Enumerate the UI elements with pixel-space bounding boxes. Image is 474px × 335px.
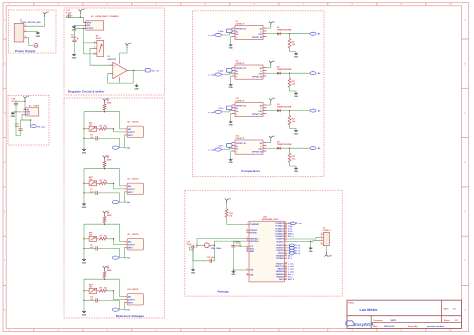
trimmer RP4 label xyxy=(89,283,94,288)
svg-text:PC6/RESET: PC6/RESET xyxy=(250,224,260,226)
resistor R9 label xyxy=(99,288,107,290)
comparators block border xyxy=(193,11,325,177)
svg-text:B0_sw: B0_sw xyxy=(295,253,301,255)
resistor R11 xyxy=(288,116,291,125)
title block REV field xyxy=(444,308,457,310)
wire R1 to rail (stage 1) xyxy=(104,103,106,105)
regulator U5 xyxy=(24,108,39,116)
op-amp U7 xyxy=(232,26,267,40)
wire cap right (stage 1) xyxy=(100,138,119,147)
wire C17 top to VCC pin xyxy=(233,242,246,247)
svg-text:2022-03-26: 2022-03-26 xyxy=(384,326,395,328)
svg-text:IN+: IN+ xyxy=(236,149,239,151)
wire cap left (stage 2) xyxy=(84,192,93,194)
wire diode to output (comparator 1) xyxy=(280,33,310,35)
svg-text:IN-: IN- xyxy=(236,108,239,110)
wire resistor to ground (comparator 2) xyxy=(290,87,297,92)
svg-text:Atmega: Atmega xyxy=(217,289,229,293)
junction (V+ rail) xyxy=(24,101,25,102)
wire rail right (stage 1) xyxy=(105,112,125,129)
resistor R1 label xyxy=(107,100,112,104)
mcu U1 ATmega8 xyxy=(246,221,287,282)
resistor R8 xyxy=(103,272,106,278)
svg-text:OFFSET_N1: OFFSET_N1 xyxy=(236,68,246,70)
capacitor C10 xyxy=(18,128,22,132)
svg-text:PB1/OC1A: PB1/OC1A xyxy=(275,265,284,268)
svg-text:Lux Meter: Lux Meter xyxy=(360,308,378,312)
svg-text:OUTPUT: OUTPUT xyxy=(128,132,136,134)
wire top rail (stage 3) xyxy=(84,223,105,259)
wire op-amp input down (stage 4) xyxy=(119,302,124,309)
net flag oval A2 xyxy=(310,72,316,75)
svg-text:1.36v: 1.36v xyxy=(125,148,131,150)
svg-text:1: 1 xyxy=(247,223,248,225)
resistor R1 xyxy=(103,104,106,110)
capacitor C15 xyxy=(190,245,197,249)
wire V- to ground (comparator 3) xyxy=(230,113,233,120)
svg-text:PC2/ADC2: PC2/ADC2 xyxy=(275,227,283,230)
resistor R10 label xyxy=(292,81,297,85)
wire PD3 to J2 pin3 xyxy=(287,240,321,243)
svg-text:Date:: Date: xyxy=(373,325,379,328)
ground (reference stage 1) xyxy=(82,148,87,154)
svg-text:3: 3 xyxy=(94,52,95,54)
resistor R12 xyxy=(288,153,291,162)
wire +V to R13 xyxy=(226,204,228,209)
svg-text:IN-: IN- xyxy=(236,146,239,148)
junction (mcu gnd) xyxy=(233,269,234,270)
wire cap left (stage 3) xyxy=(84,247,93,249)
svg-text:ADJ: ADJ xyxy=(128,128,131,131)
wire mcu GND pin xyxy=(233,269,246,271)
svg-text:NE5532P: NE5532P xyxy=(108,59,117,61)
net port (comparator 3 ref input) xyxy=(226,106,232,110)
wire xtal1 xyxy=(197,239,246,246)
wire OUT to diode (comparator 1) xyxy=(266,33,277,35)
wire rail right (stage 3) xyxy=(105,224,125,241)
potentiometer RP1 label xyxy=(96,35,102,41)
wire ref input (comparator 1) xyxy=(231,30,233,32)
trimmer RP2 xyxy=(86,181,99,186)
resistor R3 label xyxy=(107,157,112,161)
junction trimmer (stage 1) xyxy=(83,128,84,129)
svg-text:pasindu mandara: pasindu mandara xyxy=(427,325,445,328)
diode D2 label xyxy=(277,67,292,72)
power flag +V (comparator 2) xyxy=(269,61,276,66)
wire diode to output (comparator 4) xyxy=(280,147,310,149)
svg-text:L7805: L7805 xyxy=(33,106,40,108)
op-amp U12 xyxy=(232,140,267,154)
wire RP1 pin3 to gnd bus xyxy=(83,43,93,54)
junction mid (stage 4) xyxy=(113,290,114,291)
op-amp U3 label xyxy=(108,56,117,61)
resistor R2 label xyxy=(99,126,107,128)
ground (mcu) xyxy=(231,270,236,276)
capacitor C17 xyxy=(231,243,235,249)
wire output bus vertical xyxy=(83,28,93,43)
ground (C12) xyxy=(72,54,77,60)
svg-text:GND: GND xyxy=(294,96,299,98)
ground (U3) xyxy=(134,85,139,91)
svg-text:LM741CP: LM741CP xyxy=(236,23,245,26)
ground (reference stage 2) xyxy=(82,203,87,209)
wire gnd tap xyxy=(136,83,138,85)
svg-text:Power Supply: Power Supply xyxy=(15,49,36,53)
wire C15 to xtal node xyxy=(196,245,197,247)
svg-text:OFFSET_N2: OFFSET_N2 xyxy=(252,37,262,39)
svg-text:GND: GND xyxy=(229,87,234,89)
svg-text:C: C xyxy=(464,112,466,115)
wire R6 to rail (stage 3) xyxy=(104,215,106,217)
svg-text:1: 1 xyxy=(25,25,26,27)
svg-text:P1_sw: P1_sw xyxy=(296,223,302,225)
svg-text:1.02v: 1.02v xyxy=(125,202,131,204)
wire R5 to op-amp (stage 2) xyxy=(107,183,125,189)
regulator U5 label xyxy=(29,106,40,108)
svg-text:V+: V+ xyxy=(260,31,262,33)
svg-text:20: 20 xyxy=(285,278,287,280)
wire R7 to op-amp (stage 3) xyxy=(107,239,125,245)
wire U3 V+ supply xyxy=(120,48,127,59)
svg-text:23: 23 xyxy=(285,222,287,224)
wire cap left (stage 4) xyxy=(84,299,93,301)
resistor R10 xyxy=(288,78,291,87)
svg-text:0.1uF: 0.1uF xyxy=(66,13,72,15)
svg-text:G: G xyxy=(464,309,466,312)
net flag oval o_sw3 xyxy=(215,110,222,113)
ground (reference stage 4) xyxy=(82,310,87,316)
svg-text:OUTPUT: OUTPUT xyxy=(128,244,136,246)
svg-text:PC3/ADC3: PC3/ADC3 xyxy=(275,230,283,233)
wire R9 to op-amp (stage 4) xyxy=(107,291,125,300)
wire output to resistor (comparator 2) xyxy=(289,73,291,78)
resistor R12 label xyxy=(292,156,297,160)
wire U3 output xyxy=(130,69,145,71)
svg-text:2: 2 xyxy=(247,229,248,231)
wire C10 top tap xyxy=(21,120,31,128)
svg-text:IN-: IN- xyxy=(236,71,239,73)
svg-text:XTAL_8MHz: XTAL_8MHz xyxy=(211,247,222,250)
svg-text:PC0/ADC0: PC0/ADC0 xyxy=(275,222,283,225)
svg-text:5V_reg: 5V_reg xyxy=(37,126,45,128)
net flag oval 0.37v xyxy=(112,308,119,311)
wire C17 bottom to ground xyxy=(232,249,234,270)
svg-text:TMMBT1/D6F0B: TMMBT1/D6F0B xyxy=(277,107,292,109)
svg-text:LM317L: LM317L xyxy=(132,289,140,291)
svg-text:TMMBT1/D6F0B: TMMBT1/D6F0B xyxy=(277,69,292,71)
svg-text:Reference Voltages: Reference Voltages xyxy=(116,314,145,318)
junction (input rail) xyxy=(80,17,81,18)
svg-text:ADJ: ADJ xyxy=(128,240,131,243)
svg-text:GND: GND xyxy=(229,162,234,164)
svg-text:OFFSET_N2: OFFSET_N2 xyxy=(252,114,262,116)
op-amp U10 xyxy=(124,294,143,305)
junction cap (stage 3) xyxy=(83,248,84,249)
trimmer RP1 label xyxy=(89,122,93,126)
svg-text:TMMBT1/D6F0B: TMMBT1/D6F0B xyxy=(277,30,292,32)
power supply block border xyxy=(9,10,57,53)
svg-text:3: 3 xyxy=(321,239,322,241)
wire C14 top rail xyxy=(16,101,25,109)
net flag oval A3 xyxy=(310,109,316,112)
wire V+ supply (comparator 2) xyxy=(266,66,270,68)
capacitor C16 label xyxy=(207,257,216,259)
svg-text:400R: 400R xyxy=(107,102,112,105)
svg-text:0.37v: 0.37v xyxy=(125,310,131,312)
svg-text:Regulate Circuit & buffer: Regulate Circuit & buffer xyxy=(68,90,105,94)
wire R2 to op-amp (stage 1) xyxy=(107,129,125,132)
op-amp U6 xyxy=(124,183,143,194)
ground (reference stage 3) xyxy=(82,258,87,264)
wire output to resistor (comparator 1) xyxy=(289,34,291,39)
resistor R6 xyxy=(103,217,106,223)
svg-text:PC1/ADC1: PC1/ADC1 xyxy=(275,225,283,228)
diode D2 xyxy=(277,72,280,75)
power flag +V (comparator 4) xyxy=(269,136,276,141)
svg-text:28: 28 xyxy=(285,235,287,237)
junction (comparator 1 output) xyxy=(289,33,290,34)
5V regulator block border xyxy=(8,96,49,146)
wire J2 gnd tap xyxy=(310,242,312,247)
svg-text:LM78L05ACZ_COMMON: LM78L05ACZ_COMMON xyxy=(95,15,119,18)
capacitor C16 xyxy=(208,259,215,263)
ground (5V regulator block) xyxy=(11,112,16,118)
svg-text:2: 2 xyxy=(94,47,95,49)
net flag +5V circle xyxy=(34,43,38,47)
svg-text:LM317L: LM317L xyxy=(132,121,140,123)
svg-text:1: 1 xyxy=(321,233,322,235)
wire trimmer left (stage 1) xyxy=(84,128,86,130)
net flag oval A1 xyxy=(310,32,316,35)
junction (comparator 3 output) xyxy=(289,110,290,111)
wire op-amp input down (stage 1) xyxy=(119,135,124,148)
op-amp U11 label xyxy=(236,98,245,102)
wire C10 bottom to gnd xyxy=(16,112,21,136)
wire V- to ground (comparator 4) xyxy=(230,151,233,158)
svg-text:PD7/AIN1: PD7/AIN1 xyxy=(276,257,284,260)
net flag oval o_sw2 xyxy=(215,73,222,76)
wire V- to ground (comparator 1) xyxy=(230,37,233,44)
wire output to resistor (comparator 4) xyxy=(289,148,291,153)
wire U5 OUT to output net xyxy=(22,114,31,126)
op-amp U8 label xyxy=(127,234,139,236)
capacitor C4 label xyxy=(90,133,94,138)
wire ref input (comparator 3) xyxy=(231,107,233,109)
svg-text:V+: V+ xyxy=(260,108,262,110)
title block date field xyxy=(373,325,445,328)
wire PD2 to J2 pin2 xyxy=(287,237,321,239)
svg-text:PD3/INT1: PD3/INT1 xyxy=(276,241,283,243)
wire R13 to RESET pin xyxy=(227,217,247,224)
svg-text:o_sw1: o_sw1 xyxy=(208,35,215,37)
title block company field xyxy=(373,320,397,322)
capacitor C13 label xyxy=(66,10,72,15)
svg-text:PC5/ADC5: PC5/ADC5 xyxy=(275,235,283,238)
svg-text:7: 7 xyxy=(247,245,248,247)
resistor R7 xyxy=(99,237,107,240)
svg-text:PB7/XTAL2: PB7/XTAL2 xyxy=(250,240,259,243)
ground (comparator 4 resistor) xyxy=(294,167,299,173)
svg-text:OFFSET_N1: OFFSET_N1 xyxy=(236,143,246,145)
svg-text:SDA_p: SDA_p xyxy=(288,233,295,236)
op-amp U8 xyxy=(124,239,143,250)
svg-text:R7: R7 xyxy=(99,236,101,238)
op-amp U4 label xyxy=(127,120,139,123)
wire diode to output (comparator 2) xyxy=(280,72,310,74)
svg-text:OFFSET_N2: OFFSET_N2 xyxy=(252,151,262,153)
op-amp U12 label xyxy=(236,136,245,140)
wire C12 bottom to ground xyxy=(74,43,76,54)
svg-text:GND: GND xyxy=(82,263,87,265)
wire C15 left down xyxy=(190,247,194,269)
wire resistor to ground (comparator 1) xyxy=(290,48,297,53)
op-amp U4 xyxy=(124,126,143,137)
power flag +V (power supply) xyxy=(43,12,50,17)
capacitor C7 label xyxy=(90,189,94,193)
wire trimmer left (stage 4) xyxy=(84,290,86,292)
svg-text:GND: GND xyxy=(11,116,16,118)
svg-text:REV:: REV: xyxy=(444,308,449,310)
diode D4 label xyxy=(277,141,292,147)
svg-text:o_sw2: o_sw2 xyxy=(208,74,215,76)
diode D3 label xyxy=(277,104,292,109)
capacitor C11 label xyxy=(90,296,94,300)
wire R3 to rail (stage 2) xyxy=(104,160,106,162)
net flag oval A4 xyxy=(310,147,316,150)
wire cap right (stage 4) xyxy=(100,300,119,309)
wire OUT to diode (comparator 2) xyxy=(266,72,277,74)
junction mid (stage 2) xyxy=(113,183,114,184)
svg-text:R9: R9 xyxy=(99,288,101,290)
power flag +V down (J2) xyxy=(325,252,333,258)
resistor R5 label xyxy=(99,180,107,182)
svg-text:D7_o: D7_o xyxy=(288,258,292,260)
power flag +V (comparator 1) xyxy=(269,21,276,26)
svg-text:LM741CP: LM741CP xyxy=(236,99,245,102)
ground (comparator 1 V-) xyxy=(229,44,234,50)
svg-text:GND: GND xyxy=(231,274,236,276)
svg-text:GND: GND xyxy=(294,171,299,173)
net flag oval o_sw4 xyxy=(215,148,222,151)
junction (gnd rail) xyxy=(15,111,16,112)
wire top rail (stage 1) xyxy=(84,110,105,148)
capacitor C15 label xyxy=(187,242,192,246)
junction (J2 gnd tap) xyxy=(310,241,311,242)
wire op-amp input down (stage 2) xyxy=(119,192,124,202)
capacitor C14 xyxy=(14,102,18,106)
svg-text:Comparators: Comparators xyxy=(241,169,261,173)
junction rail (stage 2) xyxy=(104,168,105,169)
net port (comparator 1 ref input) xyxy=(226,29,232,33)
title block frame xyxy=(347,300,462,328)
net flag oval 1.02v xyxy=(112,201,119,204)
resistor R11 label xyxy=(292,118,297,122)
ground (comparator 2 V-) xyxy=(229,83,234,89)
svg-text:GND: GND xyxy=(82,315,87,317)
ground (J2) xyxy=(309,247,314,253)
net flag oval o_sw1 xyxy=(215,33,222,36)
svg-text:1.02v: 1.02v xyxy=(218,71,224,73)
connector J2 xyxy=(321,232,330,245)
svg-text:ADJ: ADJ xyxy=(128,295,131,298)
ground (power supply) xyxy=(36,32,41,38)
resistor R6 label xyxy=(107,213,112,217)
svg-text:CONN_4: CONN_4 xyxy=(323,229,332,232)
wire rail right (stage 2) xyxy=(105,169,125,186)
svg-text:21: 21 xyxy=(247,250,249,252)
junction cap (stage 4) xyxy=(83,300,84,301)
svg-text:20: 20 xyxy=(247,247,249,249)
capacitor C7 xyxy=(93,191,100,195)
op-amp U9 xyxy=(232,65,267,79)
ground (comparator 1 resistor) xyxy=(294,53,299,59)
svg-text:OUTPUT: OUTPUT xyxy=(128,299,136,301)
trimmer RP3 label xyxy=(89,232,93,236)
trimmer RP3 xyxy=(86,236,99,241)
svg-text:IN-: IN- xyxy=(236,31,239,33)
title block sheet field xyxy=(444,319,459,322)
junction trimmer (stage 4) xyxy=(83,290,84,291)
wire rail right (stage 4) xyxy=(105,279,125,296)
wire cap right (stage 2) xyxy=(100,193,119,202)
junction xtal2 xyxy=(214,245,215,246)
diode D3 xyxy=(277,109,280,112)
wire ref input (comparator 4) xyxy=(231,144,233,146)
regulator U2 xyxy=(83,21,103,30)
wire J1 pin1 to +V xyxy=(27,17,45,26)
svg-text:1: 1 xyxy=(94,41,95,43)
svg-text:D: D xyxy=(4,161,6,164)
junction rail (stage 4) xyxy=(104,279,105,280)
junction rail (stage 3) xyxy=(104,224,105,225)
trimmer RP1 xyxy=(86,126,99,131)
svg-text:D: D xyxy=(464,161,466,164)
svg-text:100uF: 100uF xyxy=(71,37,78,39)
wire trimmer left (stage 2) xyxy=(84,182,86,184)
svg-text:GND: GND xyxy=(82,207,87,209)
capacitor C9 label xyxy=(90,244,94,248)
wire U2 OUTPUT to C12 and RP1 xyxy=(75,28,84,38)
svg-text:25: 25 xyxy=(285,227,287,229)
wire o_sw2 to IN+ (comparator 2) xyxy=(222,73,232,74)
svg-text:PD6/AIN0: PD6/AIN0 xyxy=(276,254,284,257)
svg-text:PC4/ADC4: PC4/ADC4 xyxy=(275,233,283,236)
trimmer RP4 xyxy=(86,288,99,293)
wire R8 to rail (stage 4) xyxy=(104,270,106,272)
wire U2 GND pin to ground xyxy=(74,24,83,26)
capacitor C11 xyxy=(93,298,100,302)
svg-text:IN+: IN+ xyxy=(236,111,239,113)
crystal Y1 xyxy=(202,243,213,248)
net port Vin_ref xyxy=(145,69,150,72)
atmega block border xyxy=(185,190,342,296)
wire C16 left to gnd rail xyxy=(193,250,208,261)
wire V+ supply (comparator 4) xyxy=(266,141,270,143)
svg-text:16: 16 xyxy=(285,267,287,269)
svg-text:U6: U6 xyxy=(127,178,129,180)
junction cap (stage 2) xyxy=(83,192,84,193)
wire cap left (stage 1) xyxy=(84,137,93,139)
wire RP1 wiper to op-amp xyxy=(90,48,113,65)
svg-text:9: 9 xyxy=(247,237,248,239)
wire input rail xyxy=(66,16,86,23)
svg-text:0.71v: 0.71v xyxy=(125,258,131,260)
regulator U2 label xyxy=(91,15,119,18)
svg-text:GND: GND xyxy=(229,48,234,50)
svg-text:Drawn By:: Drawn By: xyxy=(408,325,419,328)
svg-text:R5: R5 xyxy=(99,180,101,182)
junction (U3 out) xyxy=(133,70,134,71)
